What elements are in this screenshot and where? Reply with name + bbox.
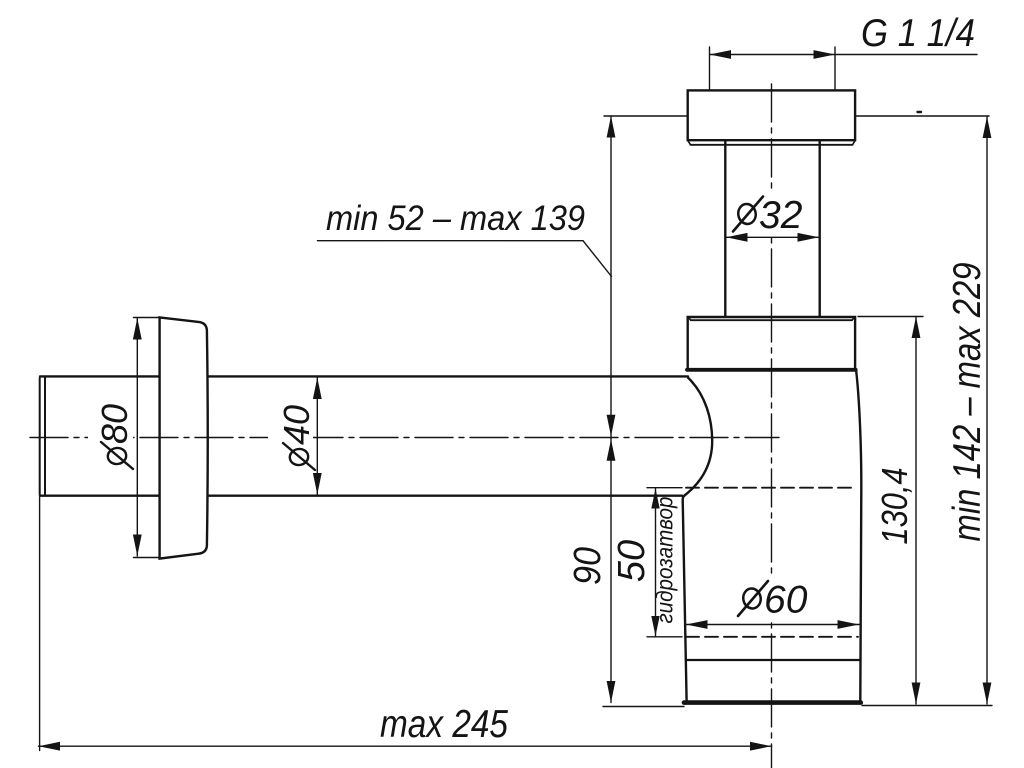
svg-text:50: 50 xyxy=(611,540,653,582)
svg-text:min 142 – max 229: min 142 – max 229 xyxy=(946,263,989,542)
svg-text:гидрозатвор: гидрозатвор xyxy=(652,496,678,623)
svg-text:32: 32 xyxy=(759,194,803,237)
svg-text:60: 60 xyxy=(764,579,808,622)
svg-text:80: 80 xyxy=(94,404,135,444)
svg-text:G 1 1/4: G 1 1/4 xyxy=(861,12,975,55)
svg-text:max 245: max 245 xyxy=(380,703,508,746)
svg-text:40: 40 xyxy=(276,405,317,445)
svg-text:min 52 – max 139: min 52 – max 139 xyxy=(326,199,585,238)
svg-text:90: 90 xyxy=(567,547,609,585)
svg-text:130,4: 130,4 xyxy=(874,468,915,545)
